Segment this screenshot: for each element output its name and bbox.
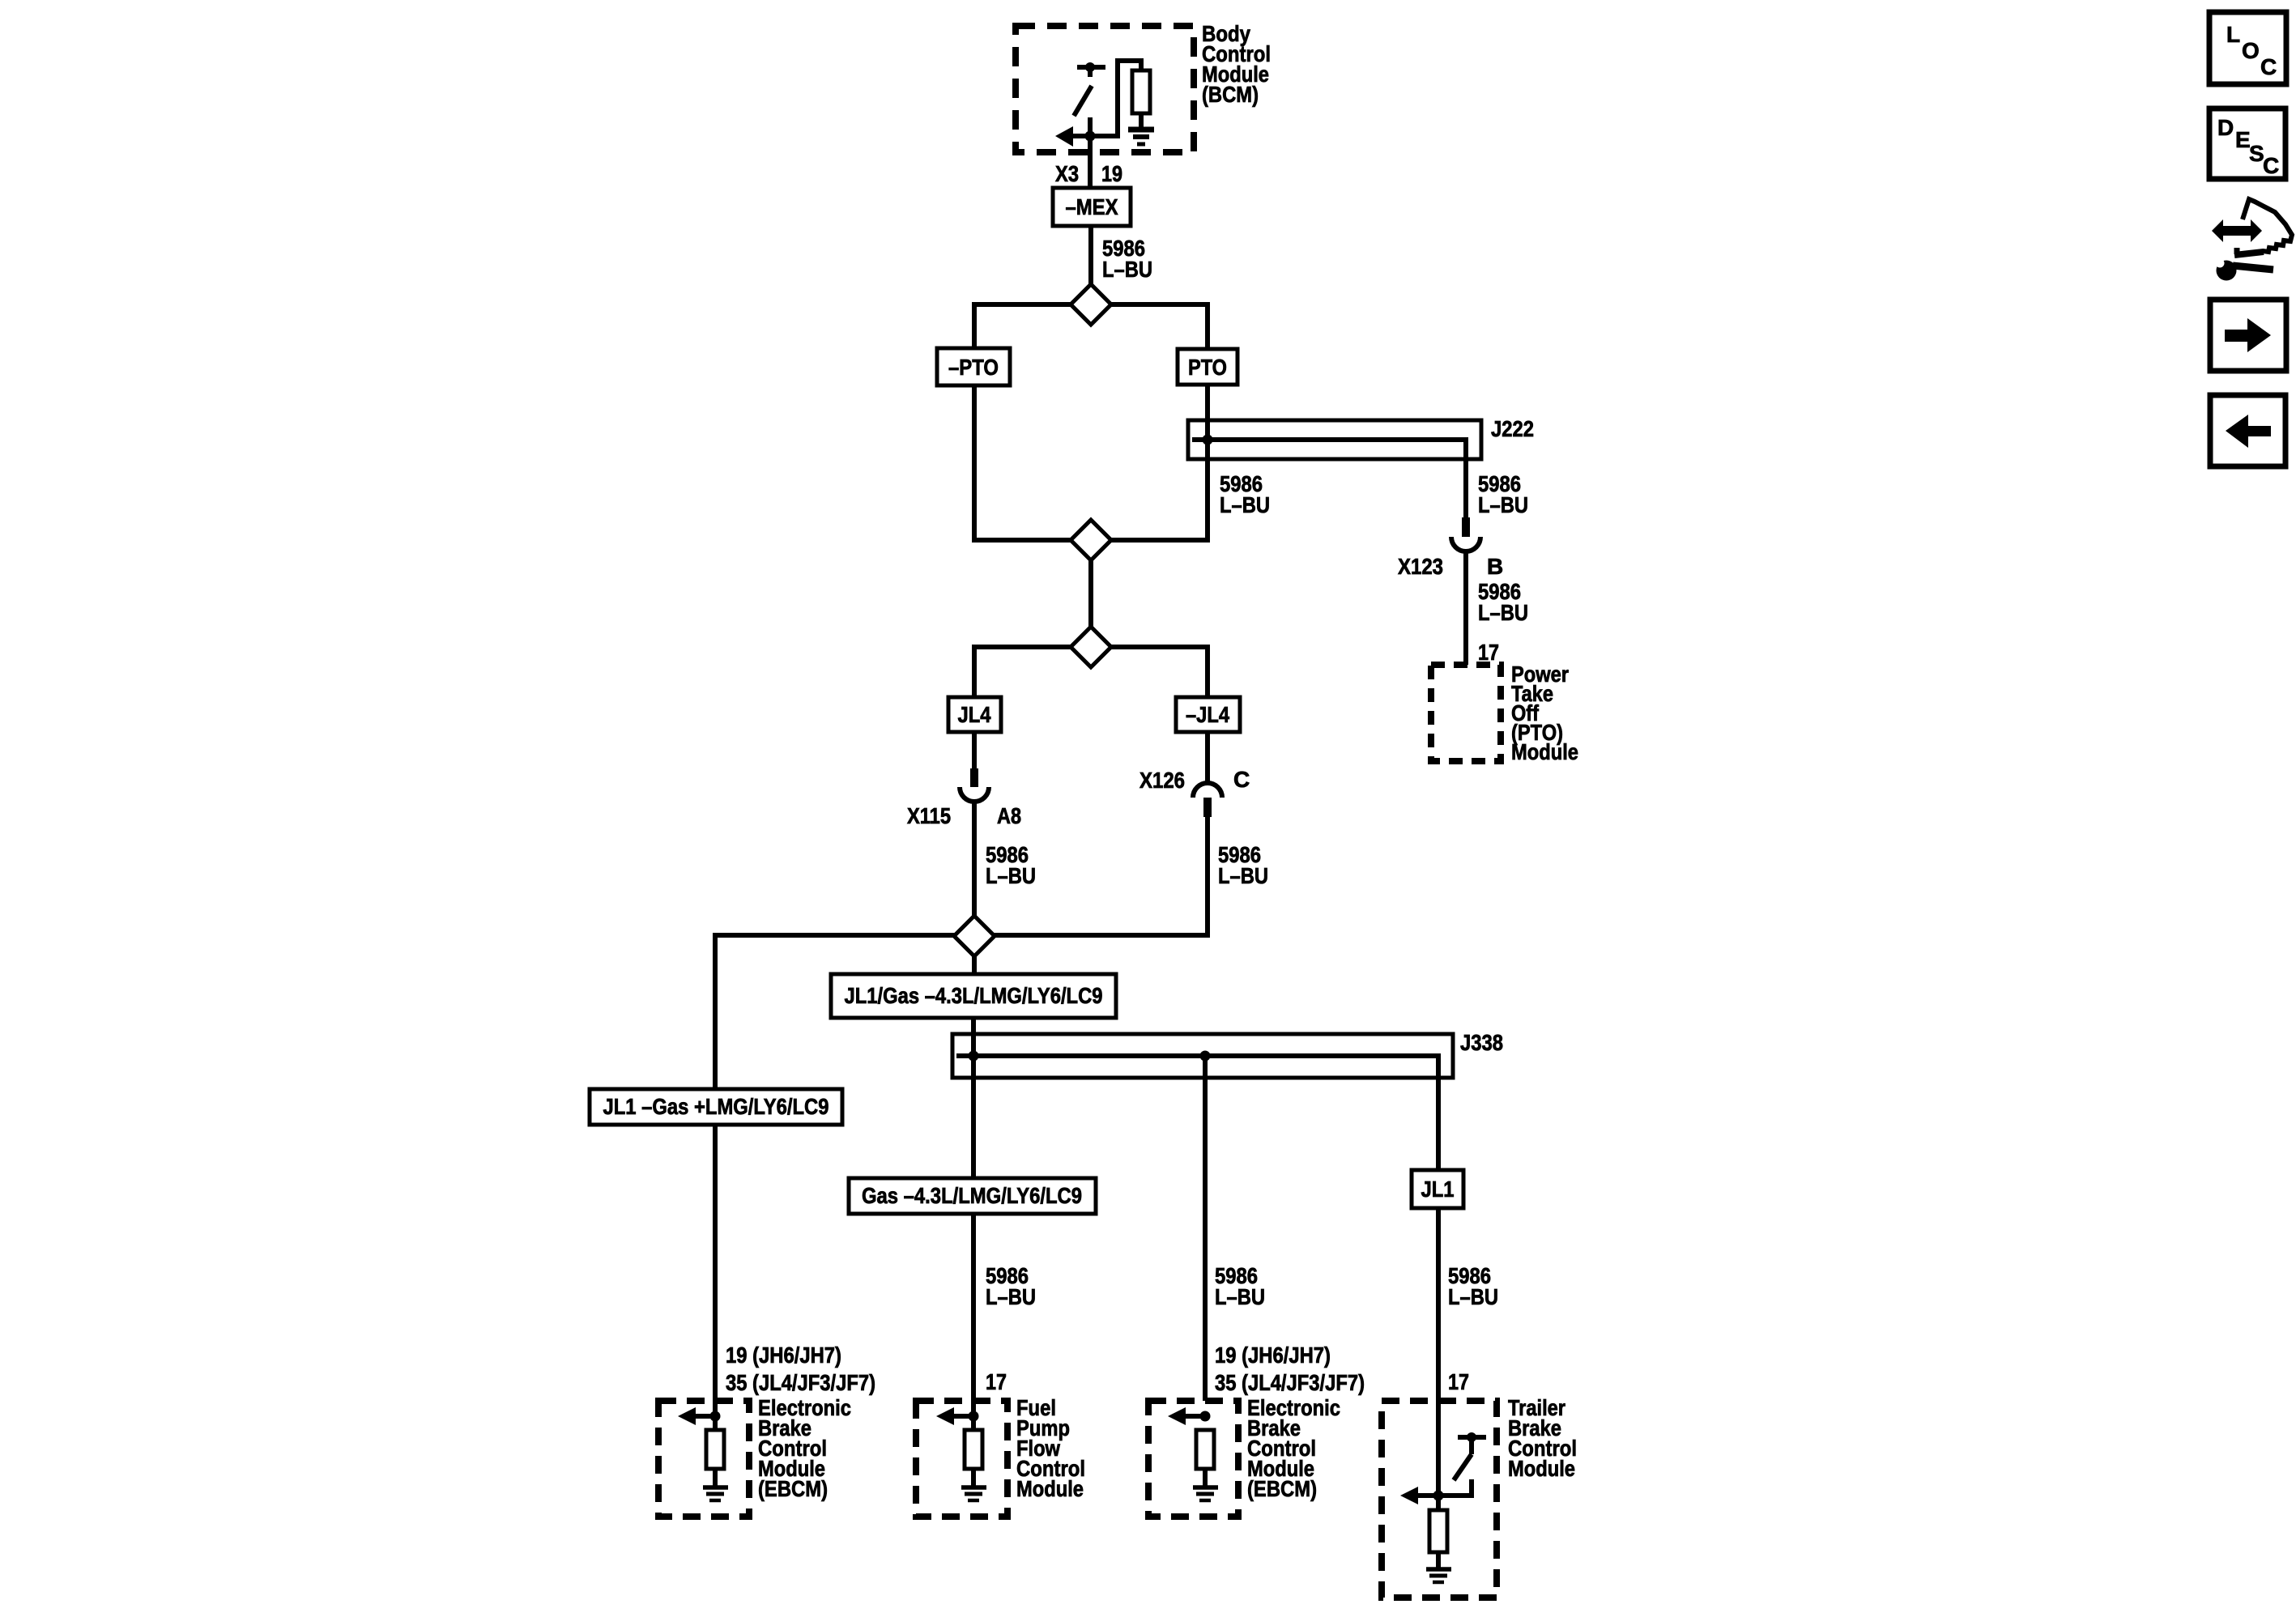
svg-text:Module: Module xyxy=(1508,1456,1575,1481)
splice diamond merge xyxy=(1071,520,1111,560)
wire into Trailer module xyxy=(1436,1401,1441,1510)
wire to ground trailer xyxy=(1436,1552,1441,1568)
sidebar DESC button xyxy=(2209,109,2285,179)
svg-text:C: C xyxy=(2263,153,2279,178)
connector X126 pin xyxy=(1203,798,1212,817)
module box Trailer (dashed) xyxy=(1382,1401,1497,1598)
node J222 tap xyxy=(1203,435,1213,445)
J338 bus bar xyxy=(956,1056,1438,1170)
node J338 tap 2 xyxy=(1200,1051,1211,1062)
svg-text:L–BU: L–BU xyxy=(986,1284,1036,1309)
ground EBCM2 xyxy=(1193,1485,1218,1490)
wire Gas box down xyxy=(971,1214,976,1401)
svg-text:JL1: JL1 xyxy=(1421,1177,1455,1202)
svg-text:(BCM): (BCM) xyxy=(1202,82,1259,107)
wire left to EBCM column xyxy=(715,935,955,1089)
svg-text:17: 17 xyxy=(986,1369,1007,1394)
wire J338 tap2 down xyxy=(1203,1056,1208,1401)
resistor Fuel xyxy=(965,1430,982,1469)
switch trailer fixed bar xyxy=(1458,1435,1486,1440)
ground trailer xyxy=(1426,1567,1451,1572)
option box Gas xyxy=(849,1178,1096,1214)
ground EBCM1 xyxy=(703,1485,728,1490)
wire X126 down to junction xyxy=(994,817,1208,935)
sidebar LOC button xyxy=(2209,12,2286,84)
svg-text:X126: X126 xyxy=(1139,768,1185,793)
module box PTO module (dashed) xyxy=(1431,665,1501,761)
switch S1 pivot junction dot xyxy=(1085,62,1095,72)
node EBCM1 junction xyxy=(710,1411,721,1422)
resistor EBCM2 xyxy=(1196,1430,1214,1469)
wire left column down xyxy=(713,1125,718,1401)
svg-text:C: C xyxy=(1233,767,1250,792)
svg-text:–PTO: –PTO xyxy=(948,355,999,380)
svg-text:O: O xyxy=(2242,38,2260,63)
svg-text:Module: Module xyxy=(1016,1476,1084,1501)
resistor R-BCM xyxy=(1132,70,1150,113)
connector X115 socket xyxy=(960,787,989,802)
svg-text:19 (JH6/JH7): 19 (JH6/JH7) xyxy=(726,1343,841,1368)
connector X126 socket xyxy=(1193,783,1222,798)
node J338 tap 1 xyxy=(969,1051,979,1062)
wire left branch JL4 xyxy=(974,647,1071,697)
signal arrow EBCM1 xyxy=(694,1414,715,1419)
switch trailer stub xyxy=(1469,1437,1474,1454)
wire resistor to ground xyxy=(1139,113,1144,127)
svg-text:B: B xyxy=(1487,554,1503,579)
signal arrow trailer xyxy=(1417,1493,1438,1498)
wire into EBCM1 xyxy=(713,1401,718,1432)
svg-text:E: E xyxy=(2235,127,2251,152)
svg-text:35 (JL4/JF3/JF7): 35 (JL4/JF3/JF7) xyxy=(1215,1370,1365,1395)
svg-text:J338: J338 xyxy=(1460,1030,1503,1055)
wire BCM internal L to resistor xyxy=(1090,61,1141,136)
wire -PTO down to merge xyxy=(974,385,1071,540)
splice diamond split xyxy=(1071,627,1111,667)
connector X123 pin xyxy=(1462,517,1470,537)
switch trailer blade xyxy=(1454,1454,1472,1480)
sidebar adjust icon double arrow xyxy=(2212,219,2262,242)
svg-text:–JL4: –JL4 xyxy=(1186,702,1229,727)
svg-text:L: L xyxy=(2226,22,2240,47)
svg-text:J222: J222 xyxy=(1491,416,1534,441)
connector box JL1 xyxy=(1412,1170,1463,1208)
wire to ground EBCM1 xyxy=(713,1469,718,1486)
splice pack J222 xyxy=(1188,420,1481,459)
svg-text:Gas –4.3L/LMG/LY6/LC9: Gas –4.3L/LMG/LY6/LC9 xyxy=(862,1183,1082,1208)
svg-text:JL1 –Gas +LMG/LY6/LC9: JL1 –Gas +LMG/LY6/LC9 xyxy=(603,1094,829,1119)
splice diamond S100 xyxy=(1071,284,1111,325)
option box JL1/Gas xyxy=(831,974,1116,1018)
svg-text:A8: A8 xyxy=(997,803,1021,828)
wire S4 down xyxy=(972,955,977,974)
svg-text:L–BU: L–BU xyxy=(1220,492,1270,517)
module box EBCM1 (dashed) xyxy=(658,1401,749,1517)
connector box -MEX xyxy=(1053,188,1131,226)
svg-text:19: 19 xyxy=(1101,161,1122,186)
wire right branch top xyxy=(1110,304,1208,349)
switch S1 blade xyxy=(1074,86,1092,116)
switch S1 fixed contact bar xyxy=(1077,65,1105,70)
svg-text:L–BU: L–BU xyxy=(1478,492,1528,517)
signal arrow Fuel xyxy=(952,1414,973,1419)
module box BCM (dashed) xyxy=(1016,26,1194,152)
wire JL1/Gas to J338 xyxy=(971,1018,976,1178)
wire left branch top xyxy=(974,304,1071,348)
wire JL1 down xyxy=(1436,1208,1441,1401)
svg-text:(EBCM): (EBCM) xyxy=(1247,1476,1317,1501)
svg-text:X123: X123 xyxy=(1398,554,1443,579)
svg-text:17: 17 xyxy=(1448,1369,1469,1394)
wire JL4 to X115 xyxy=(972,732,977,768)
svg-text:D: D xyxy=(2217,115,2234,140)
wire -JL4 to X126 xyxy=(1205,732,1210,784)
sidebar adjust icon hand bottom bar xyxy=(2234,252,2264,255)
svg-text:C: C xyxy=(2260,54,2277,79)
svg-text:L–BU: L–BU xyxy=(1448,1284,1498,1309)
svg-text:19 (JH6/JH7): 19 (JH6/JH7) xyxy=(1215,1343,1331,1368)
svg-text:X3: X3 xyxy=(1055,161,1079,186)
sidebar next arrow button xyxy=(2210,300,2286,371)
signal arrow in BCM xyxy=(1072,134,1090,138)
sidebar adjust icon hand outline xyxy=(2243,199,2292,252)
node Fuel junction xyxy=(969,1411,979,1422)
wire PTO through J222 to merge xyxy=(1110,385,1208,540)
splice pack J338 xyxy=(952,1034,1453,1078)
svg-text:L–BU: L–BU xyxy=(1102,257,1152,282)
splice diamond S4 xyxy=(954,916,995,956)
wire to ground EBCM2 xyxy=(1203,1469,1208,1486)
svg-text:S: S xyxy=(2249,141,2264,166)
J222 bus bar xyxy=(1192,440,1466,517)
signal arrow EBCM2 xyxy=(1184,1414,1205,1419)
svg-text:JL4: JL4 xyxy=(958,702,991,727)
wire to ground Fuel xyxy=(971,1469,976,1486)
svg-text:L–BU: L–BU xyxy=(1218,863,1268,888)
switch trailer lower leg xyxy=(1438,1479,1472,1496)
svg-text:(EBCM): (EBCM) xyxy=(758,1476,828,1501)
wire X115 down xyxy=(972,802,977,917)
connector X115 pin xyxy=(970,768,978,787)
connector box PTO xyxy=(1178,349,1237,385)
svg-text:Module: Module xyxy=(1511,739,1578,764)
svg-text:JL1/Gas –4.3L/LMG/LY6/LC9: JL1/Gas –4.3L/LMG/LY6/LC9 xyxy=(845,983,1103,1008)
resistor trailer xyxy=(1429,1510,1447,1552)
wire right branch -JL4 xyxy=(1110,647,1208,697)
svg-text:L–BU: L–BU xyxy=(986,863,1036,888)
wire into Fuel module xyxy=(971,1401,976,1432)
connector box -JL4 xyxy=(1176,697,1240,732)
wire X123 to PTO module xyxy=(1463,551,1468,665)
node EBCM2 junction xyxy=(1200,1411,1211,1422)
node BCM junction xyxy=(1085,131,1096,142)
switch S1 contact stub xyxy=(1088,67,1093,77)
svg-text:PTO: PTO xyxy=(1188,355,1227,380)
connector X123 socket xyxy=(1451,537,1480,551)
svg-text:X115: X115 xyxy=(907,803,951,828)
ground in BCM xyxy=(1128,127,1154,133)
svg-text:17: 17 xyxy=(1478,640,1499,665)
svg-text:L–BU: L–BU xyxy=(1215,1284,1265,1309)
wire BCM output xyxy=(1088,117,1093,188)
option box JL1 -Gas xyxy=(590,1089,842,1125)
connector box JL4 xyxy=(948,697,1001,732)
module box Fuel Pump (dashed) xyxy=(916,1401,1007,1517)
svg-text:–MEX: –MEX xyxy=(1066,194,1118,219)
ground Fuel xyxy=(961,1485,986,1490)
node trailer junction xyxy=(1433,1491,1444,1501)
wire merge to split xyxy=(1088,559,1093,628)
svg-text:L–BU: L–BU xyxy=(1478,600,1528,625)
sidebar adjust icon wrench xyxy=(2217,261,2237,281)
module box EBCM2 (dashed) xyxy=(1148,1401,1238,1517)
resistor EBCM1 xyxy=(706,1430,724,1469)
wire -MEX to splice xyxy=(1088,226,1093,286)
switch trailer pivot dot xyxy=(1467,1432,1476,1442)
sidebar prev arrow button xyxy=(2210,395,2285,466)
connector box -PTO xyxy=(937,348,1010,385)
svg-text:35 (JL4/JF3/JF7): 35 (JL4/JF3/JF7) xyxy=(726,1370,875,1395)
